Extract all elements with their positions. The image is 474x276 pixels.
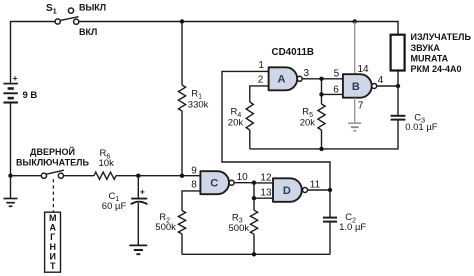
node: R3 on bottom net [252, 252, 256, 256]
node: R1 top on rail [180, 19, 184, 23]
feedback wire: D output up and over to gate A pin 1 [222, 71, 330, 190]
wire: R1 node to gate C pin 9 [182, 175, 201, 177]
svg-text:12: 12 [260, 172, 272, 183]
svg-text:ИЗЛУЧАТЕЛЬ: ИЗЛУЧАТЕЛЬ [411, 32, 472, 42]
svg-text:3: 3 [304, 68, 310, 79]
label МАГНИТ (vertical letters) [49, 213, 57, 271]
node: A out / R5 branch [319, 77, 323, 81]
svg-text:+: + [13, 73, 18, 83]
wire: C1 node to R1 node [138, 175, 182, 177]
capacitor C1 60uF polarized [131, 176, 148, 245]
op gate C (NAND CD4011B) [200, 171, 234, 194]
wire: bottom net R2 to C2 [182, 253, 330, 255]
wire: C2 bottom lead [329, 222, 331, 254]
pin 14 supply wire (gray) [354, 22, 356, 75]
svg-text:20k: 20k [228, 118, 244, 129]
wire: speaker bottom lead [397, 71, 399, 87]
wire: gate D output to C2/feedback node [308, 189, 331, 191]
svg-text:10k: 10k [99, 158, 115, 169]
switch S1 [55, 8, 79, 24]
wire: junction down to pin 13 node [253, 183, 255, 199]
svg-text:А: А [49, 223, 56, 233]
svg-text:ЗВУКА: ЗВУКА [411, 43, 441, 53]
resistor R3 500k [250, 198, 257, 254]
svg-text:1.0 µF: 1.0 µF [339, 222, 366, 233]
capacitor C3 0.01uF [391, 116, 406, 120]
svg-text:ВКЛ: ВКЛ [79, 27, 97, 37]
wire: pin 6 to gate B [322, 93, 344, 95]
svg-text:D: D [283, 185, 291, 197]
ground (battery return) [4, 199, 18, 207]
resistor R2 500k [178, 211, 185, 255]
svg-text:0.01 µF: 0.01 µF [405, 122, 438, 133]
node: pin 14 on top rail [353, 19, 357, 23]
svg-text:13: 13 [260, 187, 272, 198]
wire: door switch to R6 [64, 175, 94, 177]
resistor R4 20k [246, 102, 253, 149]
node: battery/door-switch/ground junction [8, 174, 12, 178]
svg-text:B: B [352, 81, 360, 93]
svg-text:60 µF: 60 µF [102, 201, 127, 212]
wire: pin 13 to gate D [254, 197, 273, 199]
svg-text:Г: Г [50, 232, 55, 242]
pin 7 ground wire (gray) [354, 98, 356, 123]
svg-text:7: 7 [358, 101, 364, 112]
svg-text:11: 11 [310, 180, 321, 191]
svg-text:MURATA: MURATA [411, 54, 449, 64]
svg-text:РКМ 24-4А0: РКМ 24-4А0 [411, 64, 462, 74]
wire: C2 top lead [329, 190, 331, 217]
wire: R6 to C1 node [116, 175, 138, 177]
svg-text:C: C [210, 178, 218, 190]
svg-text:9: 9 [191, 166, 197, 177]
svg-text:+: + [140, 187, 145, 197]
wire: left rail to switch S1 [10, 21, 55, 23]
wire: top rail from switch S1 to right corner above speaker [79, 22, 398, 35]
wire: gate C pin 8 lead to R2 [182, 191, 201, 211]
svg-text:500k: 500k [229, 223, 250, 234]
node: R1 bottom junction [180, 174, 184, 178]
ground (pin 7, gray) [348, 123, 361, 131]
svg-text:1: 1 [258, 60, 264, 71]
svg-text:ВЫКЛ: ВЫКЛ [79, 2, 106, 12]
magnet box [45, 212, 61, 272]
label ИЗЛУЧАТЕЛЬ ЗВУКА MURATA РКМ 24-4А0 [411, 32, 472, 74]
svg-text:М: М [49, 213, 57, 223]
wire: main horizontal to door switch [11, 175, 42, 177]
svg-text:10: 10 [237, 172, 249, 183]
wire: left rail from switch to battery top [10, 22, 12, 83]
svg-text:ВЫКЛЮЧАТЕЛЬ: ВЫКЛЮЧАТЕЛЬ [16, 157, 89, 167]
svg-text:2: 2 [258, 75, 264, 86]
svg-text:ДВЕРНОЙ: ДВЕРНОЙ [30, 146, 75, 157]
node: pin 6 junction [319, 92, 323, 96]
node: C1 top junction [136, 174, 140, 178]
node: R5 on bottom net [319, 147, 323, 151]
wire: battery bottom down to junction [10, 103, 12, 175]
battery B1 9V [3, 84, 18, 103]
wire: gate C output to pin 12/13 node [234, 182, 254, 184]
svg-text:4: 4 [378, 75, 384, 86]
wire: R4/R5 bottom net to C3 bottom [250, 120, 398, 149]
wire: junction down to ground [10, 176, 12, 198]
svg-text:A: A [278, 74, 286, 86]
speaker (piezo emitter) [391, 35, 405, 71]
wire: gate A pin 2 to R4 [250, 86, 269, 102]
node: D out / C2 / feedback [328, 188, 332, 192]
op gate B (NAND CD4011B) [343, 74, 377, 98]
svg-text:8: 8 [191, 180, 197, 191]
node: B out / speaker / C3 [396, 84, 400, 88]
node: C out / D input junction [252, 181, 256, 185]
wire: gate A output to gate B pin 5 [302, 78, 343, 80]
resistor R5 20k [318, 94, 325, 148]
dashed link to magnet [52, 179, 54, 211]
op gate D (NAND CD4011B) [273, 178, 308, 202]
wire: pin 12 to gate D [254, 182, 273, 184]
wire: branch down to pin 6 node [321, 79, 323, 95]
svg-text:20k: 20k [300, 118, 316, 129]
resistor R6 [94, 172, 116, 179]
svg-text:6: 6 [333, 84, 339, 95]
svg-text:И: И [49, 251, 55, 261]
op gate A (NAND CD4011B) [269, 67, 303, 90]
svg-text:330k: 330k [188, 100, 209, 111]
svg-text:Н: Н [49, 242, 56, 252]
svg-text:Т: Т [50, 261, 56, 271]
wire: gate B output to speaker node [377, 85, 398, 87]
resistor R1 330k [178, 22, 185, 176]
capacitor C2 1.0uF [323, 218, 337, 222]
node: pin 13 junction [252, 196, 256, 200]
svg-text:9 В: 9 В [23, 90, 38, 101]
svg-text:CD4011B: CD4011B [272, 47, 314, 58]
svg-text:5: 5 [334, 68, 340, 79]
wire: node down to C3 [397, 86, 399, 115]
svg-text:500k: 500k [155, 222, 176, 233]
door switch (reed) [41, 170, 64, 178]
ground (C1) [129, 245, 147, 254]
